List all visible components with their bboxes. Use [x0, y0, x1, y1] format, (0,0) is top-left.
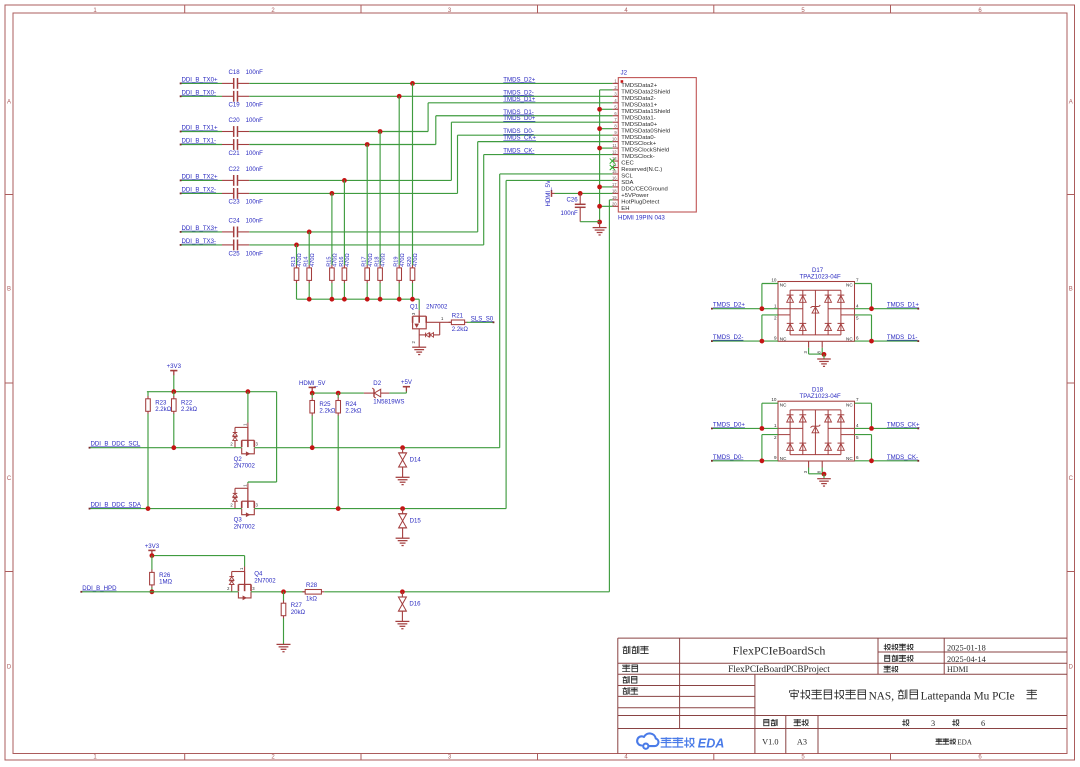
junction TMDS_D1+ tap: [378, 129, 383, 134]
wire HotPlugDetect down: [609, 199, 612, 201]
junction C26 tap: [578, 191, 583, 196]
svg-text:R15: R15: [326, 257, 332, 267]
svg-text:+3V3: +3V3: [167, 363, 182, 370]
svg-text:C21: C21: [229, 150, 241, 157]
junction D17 ground: [822, 352, 827, 357]
svg-text:NC: NC: [780, 337, 787, 342]
wire SLS_S0: [467, 321, 494, 323]
svg-text:NC: NC: [846, 283, 853, 288]
wire TMDS_D2- to pin 3: [249, 95, 612, 97]
wire TMDS_D2-: [712, 340, 778, 342]
svg-text:R21: R21: [452, 313, 464, 320]
svg-text:B: B: [1069, 287, 1073, 293]
capacitor C22 100nF: [222, 179, 234, 181]
junction D16 tap: [400, 589, 405, 594]
title text 更新日期: [885, 655, 890, 661]
wire 3V3 bus: [147, 391, 277, 393]
junction TMDS_CK+ tap: [307, 230, 312, 235]
junction shield bus: [597, 126, 602, 131]
junction R26 bottom: [150, 589, 155, 594]
wire TMDS_CK- riser: [483, 155, 485, 245]
svg-text:2.2kΩ: 2.2kΩ: [155, 406, 172, 413]
wire +3V3 to R26/Q4: [151, 554, 153, 557]
wire TMDS_D0+: [712, 427, 778, 429]
svg-text:2.2kΩ: 2.2kΩ: [181, 406, 198, 413]
junction TMDS_D1- tap: [365, 142, 370, 147]
junction bus: [410, 297, 415, 302]
wire D2 to +5V: [389, 392, 406, 394]
junction R23 bottom: [146, 506, 151, 511]
svg-text:470Ω: 470Ω: [381, 253, 387, 267]
svg-text:A: A: [1069, 100, 1073, 106]
resistor R22 2.2kΩ: [173, 392, 175, 397]
resistor R19 470Ω: [398, 96, 400, 265]
svg-text:NC: NC: [846, 402, 853, 407]
wire TMDS_CK+ riser: [477, 142, 479, 232]
junction TMDS_D2+ tap: [410, 81, 415, 86]
svg-text:CEC: CEC: [621, 161, 634, 167]
wire shield pin 2: [600, 89, 613, 91]
svg-text:2N7002: 2N7002: [234, 463, 256, 470]
resistor R18 470Ω: [379, 132, 381, 266]
resistor R23 2.2kΩ: [147, 392, 149, 397]
svg-text:TMDSData1-: TMDSData1-: [621, 115, 655, 121]
svg-text:470Ω: 470Ω: [345, 253, 351, 267]
svg-text:100nF: 100nF: [246, 117, 264, 124]
svg-text:6: 6: [856, 335, 859, 340]
svg-text:SCL: SCL: [621, 174, 633, 180]
resistor R27 20kΩ: [283, 592, 285, 601]
svg-text:100nF: 100nF: [246, 166, 264, 173]
svg-text:20: 20: [612, 201, 617, 206]
svg-text:TMDSClockShield: TMDSClockShield: [621, 148, 669, 154]
wire SDA riser: [505, 180, 507, 508]
wire shield pin 11: [600, 147, 613, 149]
svg-text:470Ω: 470Ω: [368, 253, 374, 267]
junction R22 top: [171, 389, 176, 394]
junction R27 tap: [281, 589, 286, 594]
svg-text:R13: R13: [291, 257, 297, 267]
svg-text:DDC/CECGround: DDC/CECGround: [621, 187, 667, 193]
svg-text:D2: D2: [373, 380, 381, 387]
junction bus: [330, 297, 335, 302]
esd array D17 TPAZ1023-04F: [778, 282, 855, 342]
svg-text:TMDSData0+: TMDSData0+: [621, 122, 657, 128]
svg-text:470Ω: 470Ω: [413, 253, 419, 267]
logo 嘉立创EDA: [637, 733, 658, 748]
svg-text:100nF: 100nF: [246, 150, 264, 157]
svg-text:C18: C18: [229, 69, 241, 76]
svg-text:5: 5: [856, 315, 859, 320]
svg-text:100nF: 100nF: [246, 218, 264, 225]
svg-text:19: 19: [612, 195, 617, 200]
wire TMDS_D0+ horizontal from cap: [249, 179, 451, 181]
wire TMDS_D1- to pin 6: [436, 115, 613, 117]
wire HPD to riser: [324, 591, 609, 593]
title text 图页: [884, 666, 891, 672]
svg-text:HDMI_5V: HDMI_5V: [545, 179, 552, 206]
junction shield bus: [597, 185, 602, 190]
svg-text:100nF: 100nF: [246, 69, 264, 76]
svg-text:100nF: 100nF: [246, 102, 264, 109]
svg-text:C26: C26: [567, 197, 579, 204]
wire D17 ground pins: [808, 348, 810, 354]
svg-text:TMDSData0Shield: TMDSData0Shield: [621, 128, 670, 134]
svg-text:6: 6: [856, 455, 859, 460]
svg-text:C20: C20: [229, 117, 241, 124]
svg-text:2.2kΩ: 2.2kΩ: [319, 408, 336, 415]
ground at connector: [593, 227, 607, 229]
resistor R17 470Ω: [366, 145, 368, 266]
capacitor C19 100nF: [222, 95, 234, 97]
capacitor C21 100nF: [222, 144, 234, 146]
svg-text:FlexPCIeBoardPCBProject: FlexPCIeBoardPCBProject: [728, 665, 830, 675]
junction shield bus: [597, 204, 602, 209]
svg-text:10: 10: [612, 137, 617, 142]
svg-text:C24: C24: [229, 218, 241, 225]
power flag +5V: [403, 386, 410, 388]
svg-text:TMDSClock-: TMDSClock-: [621, 154, 654, 160]
capacitor C18 100nF: [222, 82, 234, 84]
svg-text:HDMI_5V: HDMI_5V: [299, 380, 326, 387]
resistor R24 2.2kΩ: [337, 393, 339, 398]
svg-text:+5V: +5V: [401, 379, 413, 386]
wire TMDS_D1+ horizontal from cap: [249, 131, 428, 133]
svg-text:7: 7: [856, 397, 859, 402]
transistor Q1 2N7002: [418, 310, 420, 316]
svg-text:TMDSData0-: TMDSData0-: [621, 135, 655, 141]
no-connect X pin13: [610, 158, 615, 163]
wire Q4 gate: [244, 556, 246, 567]
junction shield bus ground: [597, 220, 602, 225]
wire TMDS_D0- horizontal from cap: [249, 192, 457, 194]
svg-text:2025-01-18: 2025-01-18: [947, 644, 986, 653]
wire resistor array bottom bus: [297, 298, 420, 300]
svg-text:NC: NC: [846, 337, 853, 342]
wire shield pin 8: [600, 128, 613, 130]
wire SCL riser: [499, 174, 501, 448]
title text 页 3 共 6: [903, 720, 909, 726]
resistor R28 1kΩ: [302, 591, 305, 593]
junction bus: [397, 297, 402, 302]
svg-text:TMDSClock+: TMDSClock+: [621, 141, 656, 147]
svg-text:D14: D14: [410, 457, 422, 464]
wire DDI_B_TX0+ left segment: [181, 82, 222, 84]
wire shield pin 5: [600, 108, 613, 110]
power flag HDMI_5V left: [309, 386, 316, 388]
svg-text:A: A: [7, 100, 11, 106]
wire TMDS_D1+ riser: [427, 103, 429, 132]
svg-text:100nF: 100nF: [246, 251, 264, 258]
wire DDI_B_DDC_SDA: [90, 508, 242, 510]
svg-text:C22: C22: [229, 166, 241, 173]
svg-text:R16: R16: [339, 257, 345, 267]
power flag +3V3 bottom: [148, 549, 155, 551]
svg-text:2: 2: [774, 315, 777, 320]
svg-text:A3: A3: [797, 737, 807, 746]
svg-text:7: 7: [856, 277, 859, 282]
svg-text:2.2kΩ: 2.2kΩ: [452, 326, 469, 333]
svg-text:+3V3: +3V3: [145, 543, 160, 550]
junction R25 top: [310, 391, 315, 396]
svg-text:100nF: 100nF: [561, 210, 579, 217]
wire shield bus vertical: [599, 90, 601, 222]
svg-text:6: 6: [981, 719, 985, 728]
svg-text:TMDSData1Shield: TMDSData1Shield: [621, 109, 670, 115]
wire HDMI_5V bus: [311, 392, 313, 393]
junction +3V3 node: [150, 553, 155, 558]
title text 绘制: [623, 676, 629, 683]
connector J2 HDMI 19PIN 043: [618, 78, 696, 212]
svg-text:17: 17: [612, 182, 617, 187]
svg-text:TMDSData2Shield: TMDSData2Shield: [621, 89, 670, 95]
svg-text:Q1: Q1: [410, 303, 419, 310]
resistor R16 470Ω: [343, 180, 345, 265]
svg-text:10: 10: [771, 397, 777, 402]
svg-text:EDA: EDA: [698, 737, 725, 751]
junction TMDS_CK- tap: [294, 243, 299, 248]
wire DDI_B_TX3+ left segment: [181, 231, 222, 233]
svg-text:2N7002: 2N7002: [234, 524, 256, 531]
wire TMDS_CK+: [855, 427, 919, 429]
title block: [618, 637, 1067, 639]
wire TMDS_D1- horizontal from cap: [249, 144, 435, 146]
svg-text:NC: NC: [846, 456, 853, 461]
svg-text:2: 2: [774, 435, 777, 440]
resistor R21 2.2kΩ: [440, 321, 452, 323]
svg-text:B: B: [7, 287, 11, 293]
wire gate Q2: [247, 392, 249, 423]
wire DDI_B_TX3- left segment: [181, 244, 222, 246]
svg-text:1: 1: [774, 304, 777, 309]
junction R24 bottom: [336, 506, 341, 511]
wire TMDS_D0+ to pin 7: [451, 121, 612, 123]
resistor R14 470Ω: [308, 232, 310, 266]
svg-text:V1.0: V1.0: [762, 737, 778, 746]
junction TMDS_D0+ tap: [342, 178, 347, 183]
ground below Q1: [412, 346, 426, 348]
svg-text:5: 5: [856, 435, 859, 440]
wire TMDS_CK-: [855, 460, 919, 462]
wire DDI_B_TX1+ left segment: [181, 131, 222, 133]
svg-text:EH: EH: [621, 206, 629, 212]
diode D15 TVS: [402, 509, 404, 514]
wire TMDS_D1+ to pin 4: [428, 102, 612, 104]
diode D2 1N5819WS: [364, 392, 374, 394]
svg-text:2N7002: 2N7002: [426, 303, 448, 310]
wire D18 left bracket: [761, 403, 763, 428]
svg-text:Reserved(N.C.): Reserved(N.C.): [621, 167, 662, 173]
svg-text:9: 9: [774, 455, 777, 460]
wire TMDS_CK- horizontal from cap: [249, 244, 483, 246]
transistor Q4 2N7002: [244, 567, 246, 587]
wire TMDS_D2+ to pin 1: [249, 82, 612, 84]
svg-text:4: 4: [856, 304, 859, 309]
junction D14 tap: [400, 445, 405, 450]
svg-text:1MΩ: 1MΩ: [159, 579, 172, 586]
svg-text:C23: C23: [229, 199, 241, 206]
svg-text:D15: D15: [410, 517, 422, 524]
wire TMDS_D1-: [855, 340, 919, 342]
junction shield bus: [597, 146, 602, 151]
svg-text:1kΩ: 1kΩ: [306, 595, 317, 602]
svg-text:2N7002: 2N7002: [254, 578, 276, 585]
svg-text:Lattepanda Mu PCIe: Lattepanda Mu PCIe: [921, 690, 1015, 702]
junction TMDS_D0- tap: [330, 191, 335, 196]
resistor R13 470Ω: [296, 245, 298, 266]
junction bus: [342, 297, 347, 302]
svg-text:1: 1: [774, 423, 777, 428]
wire DDI_B_TX2- left segment: [181, 192, 222, 194]
svg-text:HDMI 19PIN 043: HDMI 19PIN 043: [618, 215, 665, 222]
wire TMDS_D0-: [712, 460, 778, 462]
wire D18 ground pins: [808, 468, 810, 474]
resistor R15 470Ω: [331, 193, 333, 265]
capacitor C25 100nF: [222, 244, 234, 246]
svg-text:TPAZ1023-04F: TPAZ1023-04F: [800, 273, 841, 280]
svg-text:20kΩ: 20kΩ: [291, 609, 306, 616]
capacitor C26 100nF: [579, 193, 581, 204]
svg-text:D: D: [7, 665, 12, 671]
junction D18 ground: [822, 472, 827, 477]
svg-text:TMDSData1+: TMDSData1+: [621, 102, 657, 108]
svg-text:J2: J2: [621, 70, 628, 77]
resistor R26 1MΩ: [151, 556, 153, 570]
wire D17 right bracket: [871, 284, 873, 309]
svg-text:R17: R17: [362, 257, 368, 267]
junction bus: [307, 297, 312, 302]
wire bus down to Q1 drain: [418, 299, 420, 310]
svg-text:NC: NC: [780, 402, 787, 407]
svg-text:470Ω: 470Ω: [400, 253, 406, 267]
resistor R25 2.2kΩ: [311, 393, 313, 398]
ground below D17: [817, 358, 831, 360]
svg-text:TMDSData2-: TMDSData2-: [621, 96, 655, 102]
wire C26 to ground bus: [580, 221, 599, 223]
wire DDI_B_HPD: [81, 591, 238, 593]
diode D16 TVS: [401, 592, 403, 597]
svg-text:FlexPCIeBoardSch: FlexPCIeBoardSch: [733, 644, 826, 658]
svg-text:11: 11: [612, 143, 617, 148]
esd array D18 TPAZ1023-04F: [778, 401, 855, 461]
svg-text:1N5819WS: 1N5819WS: [373, 398, 404, 405]
transistor Q3 2N7002: [247, 483, 249, 503]
svg-text:12: 12: [612, 150, 617, 155]
capacitor C23 100nF: [222, 192, 234, 194]
junction R25 bottom: [310, 445, 315, 450]
wire TMDS_D2+: [712, 308, 778, 310]
wire ground stub: [599, 222, 601, 227]
title slogan: [790, 690, 799, 700]
svg-text:9: 9: [774, 335, 777, 340]
svg-text:18: 18: [612, 188, 617, 193]
power flag HDMI_5V at connector: [551, 190, 553, 197]
svg-text:100nF: 100nF: [246, 199, 264, 206]
wire TMDS_CK+ to pin 10: [478, 141, 613, 143]
wire TMDS_D1+: [855, 308, 919, 310]
svg-text:R28: R28: [306, 582, 318, 589]
svg-text:TMDSData2+: TMDSData2+: [621, 83, 657, 89]
transistor Q2 2N7002: [247, 423, 249, 443]
svg-text:C19: C19: [229, 102, 241, 109]
resistor R20 470Ω: [412, 83, 414, 265]
junction R22 bottom: [171, 445, 176, 450]
svg-text:+5VPower: +5VPower: [621, 193, 648, 199]
capacitor C20 100nF: [222, 131, 234, 133]
svg-text:R20: R20: [407, 257, 413, 267]
svg-text:3: 3: [931, 719, 935, 728]
wire TMDS_D0- to pin 9: [458, 134, 613, 136]
svg-text:HDMI: HDMI: [947, 665, 969, 674]
wire D18 right bracket: [871, 403, 873, 428]
wire TMDS_CK+ horizontal from cap: [249, 231, 477, 233]
power flag +3V3 top: [170, 370, 177, 372]
svg-text:NC: NC: [780, 456, 787, 461]
svg-text:C25: C25: [229, 251, 241, 258]
svg-text:NAS,: NAS,: [869, 690, 895, 702]
ground below D18: [817, 478, 831, 480]
title text 板子: [623, 665, 630, 672]
wire TMDS_D1- riser: [435, 116, 437, 145]
svg-text:NC: NC: [780, 283, 787, 288]
title text 尺寸: [794, 719, 801, 725]
svg-text:470Ω: 470Ω: [333, 253, 339, 267]
wire TMDS_D0+ riser: [450, 122, 452, 180]
svg-text:C: C: [1069, 476, 1074, 482]
svg-text:470Ω: 470Ω: [297, 253, 303, 267]
junction TMDS_D2- tap: [397, 94, 402, 99]
wire gate Q3 path: [276, 392, 278, 482]
junction shield bus: [597, 107, 602, 112]
wire TMDS_CK- to pin 12: [484, 154, 613, 156]
no-connect X pin14: [610, 165, 615, 170]
wire D17 left bracket: [761, 284, 763, 309]
junction D15 tap: [400, 506, 405, 511]
title text 审阅: [623, 688, 629, 695]
junction bus: [365, 297, 370, 302]
wire shield pin 20: [600, 205, 613, 207]
title text 嘉立创EDA small: [936, 739, 942, 745]
capacitor C24 100nF: [222, 231, 234, 233]
svg-text:4: 4: [856, 423, 859, 428]
svg-text:HotPlugDetect: HotPlugDetect: [621, 199, 659, 205]
svg-text:D: D: [1069, 665, 1074, 671]
svg-text:10: 10: [771, 277, 777, 282]
svg-text:R18: R18: [375, 257, 381, 267]
wire shield pin 17: [600, 186, 613, 188]
wire +3V3 to bus: [173, 375, 175, 392]
wire DDI_B_DDC_SCL: [90, 447, 242, 449]
ground below R27: [277, 643, 291, 645]
title text 版本: [764, 720, 769, 726]
svg-text:R14: R14: [304, 257, 310, 267]
wire DDI_B_TX0- left segment: [181, 95, 222, 97]
svg-text:R19: R19: [394, 257, 400, 267]
junction R24 top: [336, 391, 341, 396]
svg-text:D16: D16: [409, 601, 421, 608]
svg-text:470Ω: 470Ω: [310, 253, 316, 267]
wire DDI_B_TX1- left segment: [181, 144, 222, 146]
svg-text:SDA: SDA: [621, 180, 633, 186]
diode D14 TVS: [402, 448, 404, 453]
junction bus: [378, 297, 383, 302]
svg-text:16: 16: [612, 175, 617, 180]
svg-text:C: C: [7, 476, 12, 482]
wire TMDS_D0- riser: [457, 135, 459, 193]
title text 原理图: [623, 646, 630, 653]
svg-text:2025-04-14: 2025-04-14: [947, 655, 987, 664]
wire DDI_B_TX2+ left segment: [181, 179, 222, 181]
